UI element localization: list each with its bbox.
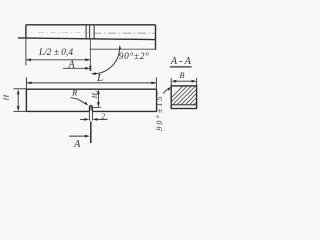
cutting plane line A (lower) [90,121,92,143]
svg-text:L: L [96,72,103,84]
top view centerline [38,32,155,35]
dimension L [26,77,156,89]
notch root line in section [171,104,196,106]
svg-text:A: A [73,139,81,149]
svg-text:H: H [2,94,11,101]
svg-text:R: R [71,87,78,97]
svg-text:A: A [67,60,75,71]
angle reference line (bar axis) for 90 deg dimension [90,48,156,50]
angular dimension arc for 90 deg [92,49,119,74]
notch slot in front view [89,106,92,112]
notch lines in top view [86,25,94,39]
leader for squareness [163,88,169,94]
svg-text:L/2 ± 0,4: L/2 ± 0,4 [38,48,73,58]
svg-text:A-A: A-A [170,56,192,67]
svg-text:90°±2°: 90°±2° [119,51,149,62]
scan noise specks [161,130,162,131]
notch root level extension line [93,106,101,108]
hatching [160,84,223,109]
front view bar outline [26,89,156,111]
dimension 2 (notch width) [80,111,108,120]
svg-text:90°±15': 90°±15' [155,93,164,131]
dimension L/2 +-0,4 [26,38,90,65]
cutting plane line A (upper) [89,39,91,66]
upper section view-direction arrow [63,67,85,69]
section A-A square [171,86,196,109]
dimension H1 (notch depth) [97,94,99,104]
svg-text:2: 2 [101,112,105,121]
svg-text:B: B [180,71,185,80]
top view bar outline [18,25,156,50]
dimension H (left) [13,89,26,112]
dimension B [171,78,196,86]
